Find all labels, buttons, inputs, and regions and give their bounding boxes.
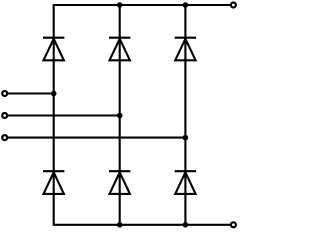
wire phase 3 input	[8, 137, 185, 139]
diode D6 (bottom middle)	[109, 171, 130, 194]
wire right column vertical	[184, 5, 186, 226]
terminal AC phase 2	[2, 113, 7, 118]
diode D3 (top middle)	[109, 38, 130, 61]
junction middle column / top rail	[117, 2, 123, 8]
junction phase 2 / middle column	[117, 113, 123, 119]
wire middle column vertical	[119, 5, 121, 226]
junction phase 3 / right column	[183, 135, 189, 141]
diode D5 (top right)	[175, 38, 196, 61]
bottom negative rail wire	[54, 224, 231, 226]
junction middle column / bottom rail	[117, 222, 123, 228]
diode D4 (bottom left)	[43, 171, 64, 194]
junction right column / top rail	[183, 2, 189, 8]
wire phase 2 input	[8, 114, 120, 116]
junction phase 1 / left column	[51, 91, 57, 97]
terminal DC positive output	[231, 3, 236, 8]
wire left column vertical	[53, 4, 55, 226]
wire phase 1 input	[8, 92, 54, 94]
terminal AC phase 1	[2, 91, 7, 96]
diode D2 (bottom right)	[175, 171, 196, 194]
diode D1 (top left)	[43, 38, 64, 61]
junction right column / bottom rail	[183, 222, 189, 228]
terminal DC negative output	[231, 222, 236, 227]
terminal AC phase 3	[2, 135, 7, 140]
top positive rail wire	[54, 4, 231, 6]
